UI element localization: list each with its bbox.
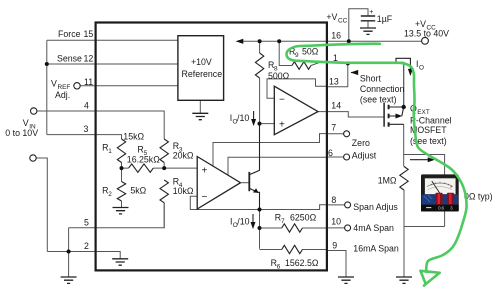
svg-text:Reference: Reference: [182, 69, 223, 79]
svg-text:15kΩ: 15kΩ: [123, 132, 144, 142]
svg-text:14: 14: [331, 101, 341, 111]
svg-text:50Ω: 50Ω: [302, 47, 319, 57]
svg-text:1: 1: [108, 148, 112, 155]
svg-text:Zero: Zero: [352, 138, 370, 148]
svg-text:+V: +V: [326, 12, 337, 22]
svg-text:16mA Span: 16mA Span: [353, 244, 399, 254]
svg-text:6: 6: [328, 148, 333, 158]
svg-text:5: 5: [84, 218, 89, 228]
svg-text:(see text): (see text): [360, 95, 397, 105]
svg-text:1562.5Ω: 1562.5Ω: [285, 258, 319, 268]
svg-text:10kΩ: 10kΩ: [173, 186, 194, 196]
svg-text:500Ω: 500Ω: [268, 71, 290, 81]
svg-text:2: 2: [84, 241, 89, 251]
svg-text:−: −: [202, 192, 208, 203]
svg-text:7: 7: [281, 218, 285, 225]
svg-text:/10: /10: [237, 113, 249, 123]
svg-text:16: 16: [331, 30, 341, 40]
svg-text:1µF: 1µF: [377, 14, 393, 24]
svg-text:8: 8: [331, 195, 336, 205]
svg-text:15: 15: [84, 29, 94, 39]
svg-text:Adj.: Adj.: [55, 90, 70, 100]
svg-text:+: +: [202, 166, 208, 177]
svg-text:V: V: [23, 118, 29, 128]
svg-text:4: 4: [84, 101, 89, 111]
svg-text:9: 9: [295, 52, 299, 59]
svg-text:Short: Short: [360, 74, 382, 84]
svg-text:+: +: [369, 9, 373, 16]
svg-text:0Ω typ): 0Ω typ): [464, 192, 493, 202]
svg-text:2: 2: [108, 191, 112, 198]
svg-text:11: 11: [84, 77, 93, 87]
svg-text:+10V: +10V: [191, 57, 212, 67]
svg-text:−: −: [279, 95, 285, 106]
svg-text:6: 6: [277, 264, 281, 271]
svg-text:V: V: [51, 79, 57, 89]
svg-text:20kΩ: 20kΩ: [173, 151, 194, 161]
svg-text:+: +: [279, 120, 285, 131]
svg-text:12: 12: [84, 54, 94, 64]
svg-text:7: 7: [331, 123, 336, 133]
svg-text:+V: +V: [415, 19, 426, 29]
svg-text:CC: CC: [338, 18, 348, 25]
svg-text:/10: /10: [237, 217, 249, 227]
svg-text:Force: Force: [58, 29, 81, 39]
svg-text:9: 9: [332, 241, 337, 251]
svg-text:0 to 10V: 0 to 10V: [5, 128, 38, 138]
svg-text:4mA Span: 4mA Span: [353, 223, 394, 233]
svg-text:5kΩ: 5kΩ: [130, 186, 146, 196]
svg-text:O: O: [419, 65, 424, 72]
svg-text:13: 13: [329, 77, 339, 87]
svg-text:Connection: Connection: [360, 84, 405, 94]
svg-text:0.6: 0.6: [438, 205, 444, 210]
svg-text:P-Channel: P-Channel: [410, 116, 452, 126]
svg-text:10: 10: [331, 217, 341, 227]
svg-text:Adjust: Adjust: [352, 151, 377, 161]
svg-text:Span Adjus: Span Adjus: [353, 202, 398, 212]
svg-text:3: 3: [84, 124, 89, 134]
svg-text:16.25kΩ: 16.25kΩ: [127, 155, 160, 165]
svg-text:1MΩ: 1MΩ: [378, 176, 397, 186]
svg-text:13.5 to 40V: 13.5 to 40V: [404, 29, 449, 39]
svg-text:Sense: Sense: [57, 54, 82, 64]
svg-text:6250Ω: 6250Ω: [290, 213, 317, 223]
